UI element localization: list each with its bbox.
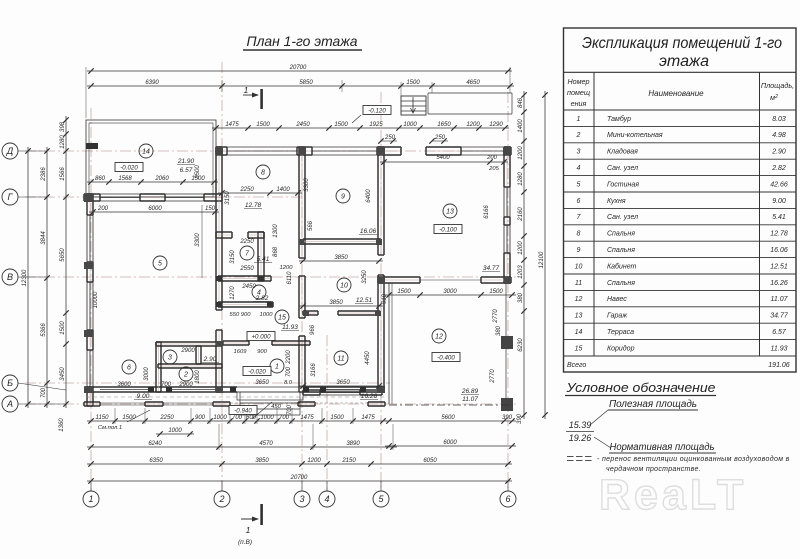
svg-text:3844: 3844: [41, 231, 47, 245]
svg-text:1500: 1500: [60, 321, 66, 335]
svg-text:398: 398: [60, 121, 66, 132]
svg-text:12: 12: [435, 334, 443, 341]
dim 3300 room5: [201, 205, 203, 278]
svg-text:42.66: 42.66: [770, 181, 788, 188]
svg-text:3150: 3150: [230, 250, 236, 264]
svg-text:1500: 1500: [406, 80, 420, 86]
svg-text:Нормативная площадь: Нормативная площадь: [610, 442, 715, 453]
svg-text:8: 8: [577, 231, 581, 238]
section mark 1 top: [260, 89, 263, 109]
table row total: [564, 355, 797, 357]
svg-text:16.06: 16.06: [770, 247, 788, 254]
terrace dim chain: [87, 181, 218, 183]
svg-text:8.03: 8.03: [772, 116, 786, 123]
svg-text:Тамбур: Тамбур: [607, 115, 631, 123]
table row 1 Тамбур: [564, 109, 797, 111]
svg-text:1000: 1000: [213, 415, 227, 421]
axis line G horizontal: [25, 196, 305, 198]
top dimension chain 6390 5850 1500 4650: [87, 85, 514, 87]
svg-text:6390: 6390: [145, 80, 159, 86]
room 3 storage mark: [163, 350, 177, 364]
svg-text:1500: 1500: [256, 122, 270, 128]
svg-text:1: 1: [246, 525, 251, 535]
left dimension chain 1566 5650 1500 3450: [65, 116, 67, 408]
svg-text:3: 3: [299, 494, 304, 504]
svg-text:1280: 1280: [60, 135, 66, 149]
axis marker 5: [373, 491, 389, 507]
svg-text:380: 380: [518, 292, 524, 303]
svg-text:390: 390: [502, 415, 513, 421]
svg-text:3000: 3000: [144, 367, 150, 381]
svg-text:1568: 1568: [118, 176, 132, 182]
svg-text:Номер: Номер: [567, 77, 589, 86]
svg-text:700: 700: [41, 387, 47, 398]
svg-text:Условное обозначение: Условное обозначение: [565, 380, 715, 395]
bottom dimension 6000: [385, 445, 516, 447]
svg-text:Спальня: Спальня: [607, 247, 635, 254]
svg-text:15.39: 15.39: [569, 420, 592, 430]
svg-text:6: 6: [505, 494, 510, 504]
left outer wall: [86, 194, 88, 215]
svg-text:868: 868: [273, 246, 279, 257]
svg-text:6.57: 6.57: [180, 167, 193, 174]
svg-text:1500: 1500: [334, 122, 348, 128]
svg-text:Б: Б: [7, 378, 13, 388]
table row 13 Гараж: [564, 306, 797, 308]
svg-text:12: 12: [575, 296, 583, 303]
svg-text:1: 1: [577, 116, 581, 123]
svg-text:3650: 3650: [336, 380, 350, 386]
svg-text:13: 13: [575, 313, 583, 320]
svg-text:3650: 3650: [255, 380, 269, 386]
garage inner dim line: [380, 161, 508, 163]
svg-text:3250: 3250: [362, 270, 368, 284]
svg-text:1200: 1200: [466, 122, 480, 128]
level mark naves: [432, 353, 460, 362]
svg-text:1: 1: [88, 494, 93, 504]
svg-text:ReaLT: ReaLT: [599, 471, 747, 519]
wall rooms 3 2: [156, 341, 222, 343]
svg-text:10: 10: [340, 283, 348, 290]
svg-text:4570: 4570: [259, 441, 273, 447]
room 8 bedroom mark: [256, 165, 270, 179]
svg-text:16.06: 16.06: [360, 228, 377, 235]
svg-text:План 1-го этажа: План 1-го этажа: [247, 33, 358, 49]
level mark corridor: [247, 332, 275, 341]
entry stairs top: [401, 96, 426, 115]
svg-text:11.07: 11.07: [462, 396, 478, 403]
svg-text:А: А: [6, 399, 13, 409]
svg-text:1203: 1203: [518, 265, 524, 279]
svg-text:1475: 1475: [225, 122, 239, 128]
svg-text:2770: 2770: [490, 369, 496, 384]
right dimension chain 846..390: [523, 91, 525, 419]
svg-text:6230: 6230: [518, 338, 524, 352]
svg-text:-0.940: -0.940: [234, 407, 252, 414]
svg-text:11.07: 11.07: [771, 296, 789, 303]
axis marker G: [2, 189, 18, 205]
naves left edge thin: [388, 283, 390, 404]
svg-text:11: 11: [337, 356, 344, 363]
table row 14 Терраса: [564, 322, 797, 324]
svg-text:1475: 1475: [300, 415, 314, 421]
svg-text:700: 700: [287, 404, 293, 415]
svg-text:10000: 10000: [93, 291, 99, 308]
table row 2 Мини-котельная: [564, 125, 797, 127]
level mark garage: [434, 225, 462, 234]
svg-text:этажа: этажа: [659, 53, 709, 70]
naves right edge: [505, 283, 507, 336]
table row 7 Сан. узел: [564, 207, 797, 209]
svg-text:1280: 1280: [518, 172, 524, 186]
svg-text:1500: 1500: [330, 415, 344, 421]
svg-text:8.0: 8.0: [284, 380, 293, 386]
room 1 tambour mark: [270, 359, 284, 373]
svg-text:26.89: 26.89: [461, 388, 479, 395]
naves column 2: [501, 398, 513, 411]
svg-text:Сан. узел: Сан. узел: [607, 214, 638, 221]
room 11 bedroom mark: [334, 351, 348, 365]
room 10 cabinet mark: [337, 278, 351, 292]
svg-text:566: 566: [308, 220, 314, 231]
svg-text:1500: 1500: [122, 415, 136, 421]
svg-text:Экспликация помещений 1-го: Экспликация помещений 1-го: [582, 35, 782, 52]
leader line upper: [590, 410, 608, 425]
svg-text:3: 3: [168, 355, 172, 362]
svg-text:700: 700: [232, 415, 243, 421]
room 12 naves mark: [432, 329, 446, 343]
axis marker 3: [294, 491, 310, 507]
svg-text:3850: 3850: [255, 458, 269, 464]
svg-text:Кухня: Кухня: [607, 198, 626, 205]
svg-text:Спальня: Спальня: [607, 231, 635, 238]
svg-text:9.00: 9.00: [137, 393, 150, 400]
level mark terrace: [115, 163, 143, 172]
south terrace edge wall: [84, 401, 100, 403]
svg-text:3150: 3150: [225, 191, 231, 205]
svg-text:3890: 3890: [346, 441, 360, 447]
table header row lines: [564, 71, 797, 73]
svg-text:1200: 1200: [280, 265, 294, 271]
svg-text:-0.120: -0.120: [368, 107, 386, 114]
svg-text:150: 150: [205, 206, 216, 212]
explication table outer border: [564, 28, 797, 372]
axis line 2 vertical: [221, 62, 223, 491]
svg-text:1800: 1800: [195, 370, 201, 384]
svg-text:Всего: Всего: [567, 362, 586, 369]
table row 5 Гостиная: [564, 175, 797, 177]
svg-text:14: 14: [142, 149, 150, 156]
terrace pier: [86, 143, 98, 149]
svg-text:1290: 1290: [489, 122, 503, 128]
svg-text:9: 9: [577, 247, 581, 254]
naves column 1: [501, 336, 513, 349]
level mark -0.120: [363, 106, 391, 115]
axis marker 1: [83, 491, 99, 507]
south wall of house: [84, 386, 237, 388]
naves dim chain: [385, 294, 516, 296]
kitchen block wall vertical: [155, 342, 157, 392]
svg-text:+0.000: +0.000: [251, 333, 271, 340]
svg-text:Гараж: Гараж: [607, 313, 628, 320]
svg-text:2160: 2160: [518, 207, 524, 222]
table row 9 Спальня: [564, 240, 797, 242]
svg-text:15: 15: [575, 345, 583, 352]
right total dimension 12100: [544, 91, 546, 419]
svg-text:1360: 1360: [59, 418, 65, 432]
svg-text:34.77: 34.77: [483, 265, 500, 272]
top dimension chain 20700: [87, 70, 512, 72]
svg-text:4450: 4450: [365, 351, 371, 365]
axis line 4 vertical: [326, 335, 328, 491]
svg-text:Кладовая: Кладовая: [607, 148, 638, 156]
svg-text:2450: 2450: [241, 284, 256, 290]
wall axis 3 vertical: [298, 147, 300, 258]
svg-text:- перенос вентиляции оцинко: - перенос вентиляции оцинкованным воздух…: [597, 455, 790, 463]
svg-text:5600: 5600: [441, 415, 455, 421]
svg-text:200: 200: [97, 206, 109, 212]
svg-text:5850: 5850: [299, 80, 313, 86]
left dimension chain 2386 3844 5366 700: [46, 147, 48, 408]
room 2 boiler mark: [179, 367, 193, 381]
svg-text:Мини-котельная: Мини-котельная: [607, 132, 663, 139]
svg-text:3: 3: [577, 149, 581, 156]
left total dimension 12300: [27, 147, 29, 408]
svg-text:Площадь,: Площадь,: [761, 81, 794, 90]
svg-text:Д: Д: [6, 146, 14, 156]
svg-text:Коридор: Коридор: [607, 344, 635, 352]
svg-text:2900: 2900: [180, 348, 195, 354]
top wall of house: [216, 146, 227, 148]
svg-text:20700: 20700: [289, 65, 307, 71]
svg-text:910: 910: [382, 293, 388, 304]
axis marker 2: [214, 491, 230, 507]
svg-text:1000: 1000: [260, 415, 274, 421]
svg-text:1609: 1609: [234, 349, 248, 355]
svg-text:1925: 1925: [369, 122, 383, 128]
svg-text:6000: 6000: [148, 206, 162, 212]
svg-text:6.57: 6.57: [772, 329, 787, 336]
room 9 bedroom mark: [336, 189, 350, 203]
svg-text:11.93: 11.93: [771, 345, 788, 352]
svg-text:34.77: 34.77: [770, 313, 789, 320]
svg-text:846: 846: [518, 97, 524, 108]
bottom dimension 5600 390: [385, 420, 516, 422]
porch outline: [237, 392, 303, 400]
table row 12 Навес: [564, 289, 797, 291]
room5 dim chain: [89, 211, 219, 213]
svg-text:Сан. узел: Сан. узел: [607, 165, 638, 172]
svg-text:2: 2: [183, 372, 188, 379]
svg-text:390: 390: [517, 413, 523, 424]
bottom dimension chain small: [87, 420, 387, 422]
svg-text:(п.В): (п.В): [238, 539, 252, 546]
axis line V horizontal: [25, 276, 516, 278]
garage right wall: [503, 147, 505, 187]
extension lines bottom: [114, 408, 116, 424]
svg-text:6400: 6400: [366, 189, 372, 203]
svg-text:6: 6: [127, 365, 131, 372]
axis line 6 vertical: [507, 92, 509, 491]
svg-text:3000: 3000: [443, 289, 457, 295]
axis line D horizontal: [25, 150, 512, 152]
axis marker B: [2, 375, 18, 391]
svg-text:700: 700: [286, 366, 292, 377]
svg-text:2250: 2250: [239, 239, 254, 245]
table row 10 Кабинет: [564, 257, 797, 259]
room 7 san uzel mark: [240, 246, 254, 260]
svg-text:2550: 2550: [239, 266, 254, 272]
bottom dimension chain 6240 4570 3890: [87, 446, 397, 448]
axis marker A: [2, 396, 18, 412]
svg-text:Спальня: Спальня: [607, 280, 635, 287]
svg-text:14: 14: [575, 329, 583, 336]
svg-text:5650: 5650: [60, 248, 66, 262]
svg-text:1300: 1300: [273, 224, 279, 238]
table row 3 Кладовая: [564, 142, 797, 144]
svg-text:2.82: 2.82: [255, 295, 269, 302]
table row 6 Кухня: [564, 191, 797, 193]
svg-text:-0.100: -0.100: [439, 226, 457, 233]
wall on axis G terrace bottom: [84, 193, 100, 195]
svg-text:См.пол.1: См.пол.1: [98, 425, 122, 431]
wall room7 room4: [218, 275, 271, 277]
svg-text:1000: 1000: [260, 312, 274, 318]
svg-text:191.06: 191.06: [768, 362, 790, 369]
room 15 corridor mark: [275, 310, 289, 324]
terrace outline thin: [86, 120, 216, 197]
room 4 san uzel mark: [252, 285, 266, 299]
svg-text:2.82: 2.82: [771, 165, 786, 172]
svg-text:450: 450: [271, 404, 281, 410]
svg-text:2: 2: [576, 132, 581, 139]
svg-text:700: 700: [161, 382, 172, 388]
svg-text:250: 250: [434, 135, 446, 141]
svg-text:1000: 1000: [168, 428, 182, 434]
svg-text:помещ: помещ: [567, 88, 590, 97]
svg-text:2250: 2250: [239, 187, 254, 193]
svg-text:11.93: 11.93: [282, 324, 298, 331]
wall tambour top: [223, 340, 249, 342]
wall room 11 bottom: [303, 389, 320, 391]
svg-text:3450: 3450: [60, 367, 66, 381]
svg-text:-0.020: -0.020: [120, 164, 138, 171]
garage left wall: [377, 147, 379, 255]
svg-text:2770: 2770: [493, 309, 499, 324]
svg-text:2: 2: [218, 494, 224, 504]
wall axis 2 vertical: [215, 147, 217, 310]
room8 dims: [218, 192, 302, 194]
dim 1000 porch left: [156, 433, 194, 435]
top dimension chain 1475..1290: [212, 127, 509, 129]
table row 15 Коридор: [564, 339, 797, 341]
naves bottom dash line: [389, 404, 513, 406]
svg-text:4: 4: [324, 494, 329, 504]
svg-text:2.90: 2.90: [771, 149, 786, 156]
wall room7 corridor vertical: [257, 232, 259, 281]
svg-text:2150: 2150: [341, 458, 356, 464]
svg-text:8: 8: [261, 170, 265, 177]
svg-text:-0.020: -0.020: [248, 368, 266, 375]
svg-text:1650: 1650: [437, 122, 451, 128]
svg-text:3850: 3850: [334, 255, 348, 261]
svg-text:9: 9: [341, 194, 345, 201]
svg-text:10: 10: [575, 263, 583, 270]
corner piers: [84, 194, 93, 202]
section mark 1 bottom: [260, 504, 263, 525]
leader line lower: [594, 437, 611, 448]
svg-text:-0.400: -0.400: [437, 354, 455, 361]
level mark porch: [229, 406, 257, 415]
svg-text:5400: 5400: [436, 155, 450, 161]
svg-text:21.90: 21.90: [177, 158, 195, 165]
svg-text:16.26: 16.26: [361, 393, 378, 400]
svg-text:5: 5: [577, 181, 581, 188]
svg-text:4: 4: [577, 165, 581, 172]
svg-text:12100: 12100: [539, 251, 545, 268]
wall room8 room7: [216, 231, 232, 233]
svg-text:6000: 6000: [443, 440, 457, 446]
svg-text:ения: ения: [571, 99, 587, 108]
svg-text:1200: 1200: [518, 241, 524, 255]
svg-text:1400: 1400: [276, 187, 290, 193]
svg-text:6: 6: [577, 198, 581, 205]
svg-text:4.98: 4.98: [772, 132, 786, 139]
svg-text:В: В: [7, 272, 13, 282]
svg-text:1270: 1270: [230, 286, 236, 300]
svg-text:6110: 6110: [287, 271, 293, 285]
svg-text:12.78: 12.78: [245, 202, 262, 209]
svg-text:380: 380: [496, 325, 502, 336]
svg-text:2900: 2900: [178, 382, 193, 388]
svg-text:16.26: 16.26: [770, 280, 788, 287]
room 6 kitchen mark: [122, 360, 136, 374]
svg-text:3500: 3500: [195, 165, 201, 179]
axis marker V: [2, 269, 18, 285]
svg-text:11: 11: [575, 280, 582, 287]
svg-text:1400: 1400: [518, 119, 524, 133]
svg-text:20700: 20700: [290, 475, 308, 481]
svg-text:5366: 5366: [41, 323, 47, 337]
svg-text:205: 205: [488, 166, 499, 172]
extension lines top: [85, 67, 87, 118]
svg-text:Полезная площадь: Полезная площадь: [609, 399, 697, 410]
axis line B horizontal: [25, 382, 390, 384]
boiler room inner wall: [195, 346, 197, 364]
svg-text:1200: 1200: [307, 458, 321, 464]
svg-text:2.90: 2.90: [203, 356, 217, 363]
svg-text:12.78: 12.78: [770, 231, 788, 238]
svg-text:1150: 1150: [96, 415, 110, 421]
room 13 garage mark: [443, 204, 457, 218]
svg-text:Навес: Навес: [607, 296, 627, 303]
svg-text:1500: 1500: [397, 289, 411, 295]
legend dashed symbol: [567, 456, 574, 458]
svg-text:1500: 1500: [489, 289, 503, 295]
svg-text:1000: 1000: [403, 122, 417, 128]
axis line A horizontal: [25, 403, 516, 405]
svg-text:12300: 12300: [22, 269, 28, 286]
svg-text:900: 900: [195, 415, 206, 421]
svg-text:2060: 2060: [154, 176, 169, 182]
svg-text:2450: 2450: [295, 122, 310, 128]
room 5 living room mark: [153, 256, 167, 270]
svg-text:9.00: 9.00: [772, 198, 786, 205]
svg-text:1200: 1200: [518, 146, 524, 160]
svg-text:1: 1: [275, 364, 279, 371]
svg-text:Наименование: Наименование: [648, 89, 704, 98]
svg-text:15: 15: [278, 315, 286, 322]
